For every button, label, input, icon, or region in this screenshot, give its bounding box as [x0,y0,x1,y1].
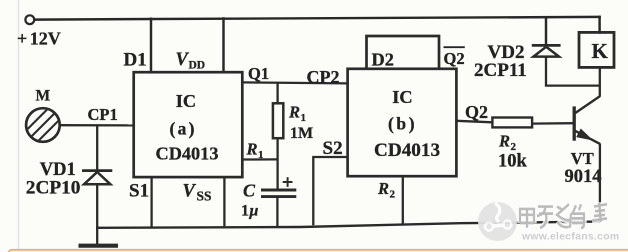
wire ground rail (bottom) [96,222,600,228]
wire Q2 to R2 [456,121,492,123]
capacitor C 1u [261,177,296,196]
label pin Q2bar [444,47,465,68]
svg-text:2CP10: 2CP10 [26,178,81,199]
svg-text:9014: 9014 [565,167,602,187]
wire VD2 cathode drop [545,17,547,45]
wire VD1 cathode segment [96,125,98,170]
svg-text:SS: SS [197,188,212,203]
svg-text:μ: μ [249,203,259,220]
wire VD2 anode to collector node [546,57,600,85]
resistor R1 1M [273,103,283,138]
svg-text:CD4013: CD4013 [156,144,219,164]
svg-text:CD4013: CD4013 [374,140,440,161]
svg-text:CP2: CP2 [307,67,340,87]
svg-text:R: R [246,140,258,159]
wire collector up to K [599,68,601,97]
svg-text:K: K [592,39,609,63]
svg-text:C: C [243,181,256,201]
wire emitter down to ground rail [599,144,601,223]
wire CP1: microphone to IC(a) [60,124,134,127]
svg-text:CP1: CP1 [88,105,118,124]
wire Q1 node down to R1 [276,83,278,104]
svg-text:IC: IC [392,87,412,107]
wire +12V top rail [35,17,600,20]
svg-text:D1: D1 [124,50,147,71]
svg-text:(a): (a) [170,119,197,139]
wire R2 to base of VT [532,122,573,125]
watermark logo elecfans [478,202,517,241]
svg-text:DD: DD [189,60,206,72]
svg-text:1: 1 [301,112,307,124]
svg-text:Q2: Q2 [465,102,488,122]
transistor VT 9014 [574,96,600,144]
wire pin R1 to node [242,158,277,160]
wire C bottom to ground rail [276,197,278,226]
svg-text:R: R [377,179,389,198]
svg-text:(b): (b) [388,114,417,134]
wire VSS to ground rail [223,177,225,226]
svg-text:2: 2 [390,188,396,200]
diode VD2 [532,45,561,56]
svg-text:D2: D2 [372,49,394,69]
wire D2/Q2bar feedback loop [367,36,440,69]
svg-text:R: R [498,132,510,151]
watermark text dianzifashaoyou (drawn glyphs) [519,203,607,228]
terminal +12V [25,15,34,24]
wire R1 bottom to capacitor C [276,138,278,190]
svg-text:M: M [36,88,51,105]
svg-text:Q2: Q2 [444,49,465,68]
svg-text:1M: 1M [290,125,313,142]
wire Q1 to CP2 [242,82,347,83]
svg-text:V: V [183,182,197,202]
svg-text:2CP11: 2CP11 [474,60,527,81]
relay K [579,32,614,67]
svg-text:10k: 10k [498,152,528,172]
wire S2 left and down to ground rail [313,157,347,225]
svg-text:www.elecfans.com: www.elecfans.com [521,232,619,243]
svg-text:S1: S1 [129,181,149,202]
svg-text:1: 1 [241,203,249,220]
svg-text:+12V: +12V [17,29,61,49]
svg-text:IC: IC [176,91,196,111]
wire pin R2 to ground rail [402,176,404,224]
IC U1a: CD4013 flip-flop (a) [134,72,243,177]
svg-text:R: R [288,103,300,122]
IC U1b: CD4013 flip-flop (b) [348,69,457,176]
svg-text:V: V [176,50,190,70]
wire VDD pin drop [222,18,224,72]
scan artifact left edge line [18,0,20,252]
scan artifact bottom tan border [9,250,628,252]
svg-text:Q1: Q1 [248,64,269,83]
ground [79,228,119,246]
wire K coil top drop [598,17,600,33]
wire S1 to ground rail [150,177,152,227]
svg-text:VT: VT [571,149,594,168]
wire D1 pin drop [150,19,152,73]
wire VD1 anode to ground rail [96,185,98,228]
resistor R2 10k [492,118,532,128]
diode VD1 [82,171,112,185]
